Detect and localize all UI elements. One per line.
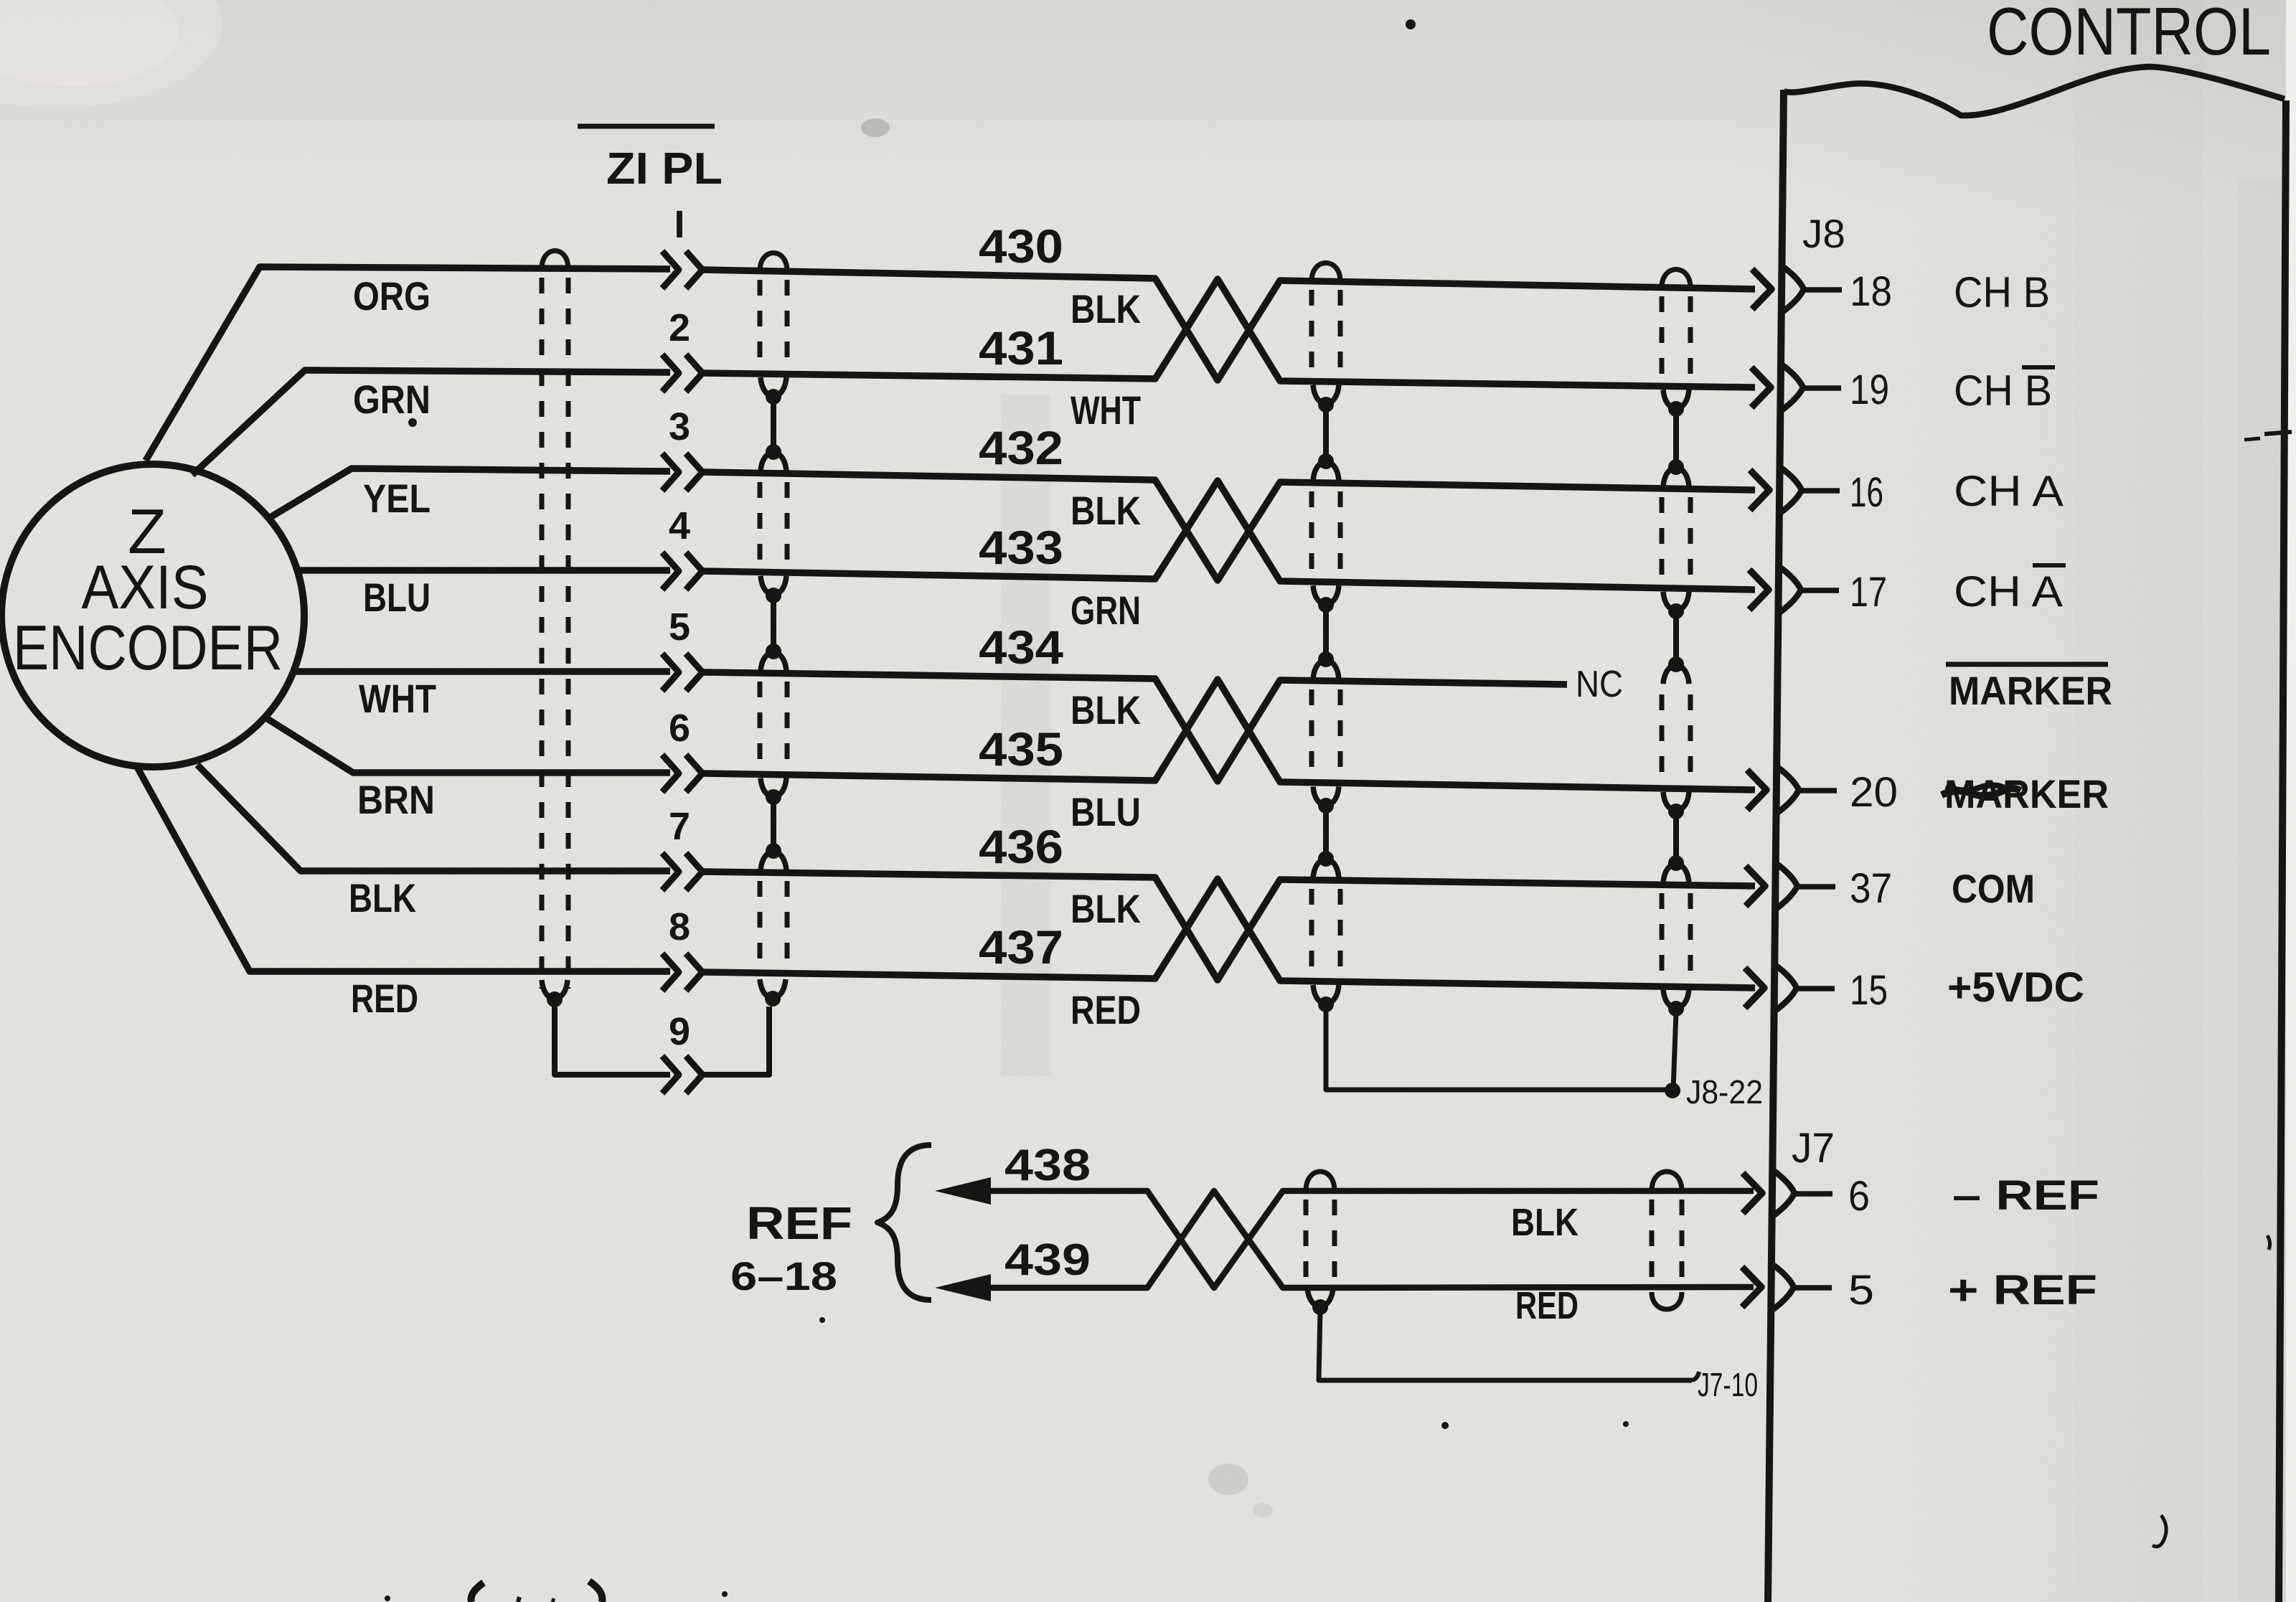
svg-text:437: 437 [979,920,1063,974]
svg-text:– REF: – REF [1952,1172,2099,1219]
svg-text:434: 434 [979,621,1063,674]
svg-text:ENCODER: ENCODER [13,612,283,683]
svg-text:ZI PL: ZI PL [606,144,723,194]
svg-text:436: 436 [979,820,1063,873]
svg-text:GRN: GRN [353,377,430,422]
svg-text:+5VDC: +5VDC [1947,964,2084,1011]
svg-text:6–18: 6–18 [730,1253,837,1299]
svg-text:J7-10: J7-10 [1698,1366,1758,1403]
svg-text:BLU: BLU [363,575,430,620]
svg-text:CH A: CH A [1954,467,2064,515]
svg-text:BLK: BLK [1071,286,1141,331]
svg-text:6: 6 [669,707,690,750]
svg-text:RED: RED [1071,987,1141,1032]
svg-text:BLU: BLU [1071,789,1141,834]
svg-text:439: 439 [1004,1235,1091,1285]
svg-text:BLK: BLK [349,875,416,920]
svg-text:J7: J7 [1792,1125,1835,1172]
svg-text:ORG: ORG [353,273,430,319]
svg-text:18: 18 [1850,268,1892,315]
svg-text:433: 433 [979,521,1063,574]
svg-text:37: 37 [1850,865,1892,912]
svg-text:J8-22: J8-22 [1686,1073,1763,1111]
svg-text:15: 15 [1850,967,1888,1014]
svg-text:BLK: BLK [1511,1201,1578,1244]
svg-text:REF: REF [746,1197,852,1249]
svg-text:J8: J8 [1802,211,1845,256]
svg-text:+ REF: + REF [1948,1267,2097,1314]
svg-text:17: 17 [1850,569,1887,616]
svg-text:CH A: CH A [1954,567,2063,616]
svg-text:3: 3 [669,405,690,448]
svg-text:19: 19 [1850,367,1889,413]
svg-text:COM: COM [1952,866,2035,911]
svg-text:2: 2 [669,306,690,349]
svg-text:431: 431 [979,321,1063,374]
svg-text:RED: RED [1515,1284,1578,1327]
svg-text:7: 7 [669,805,690,848]
svg-text:5: 5 [669,606,690,649]
svg-text:BLK: BLK [1071,488,1141,533]
svg-text:NC: NC [1576,664,1623,705]
svg-text:BLK: BLK [1071,687,1141,732]
svg-text:CONTROL: CONTROL [1987,0,2271,69]
svg-text:432: 432 [979,421,1063,474]
svg-text:YEL: YEL [363,476,430,521]
svg-text:GRN: GRN [1071,588,1141,633]
svg-text:BLK: BLK [1071,886,1141,931]
svg-text:WHT: WHT [1071,387,1141,433]
svg-text:CH B: CH B [1954,268,2050,316]
svg-text:4: 4 [669,504,690,547]
svg-text:CH B: CH B [1954,367,2052,415]
svg-text:BRN: BRN [357,777,435,822]
svg-text:5: 5 [1848,1267,1874,1314]
svg-text:I: I [674,203,684,246]
svg-text:8: 8 [669,905,690,948]
svg-text:MARKER: MARKER [1949,668,2112,713]
svg-text:435: 435 [979,722,1063,776]
svg-text:20: 20 [1850,769,1898,816]
svg-text:6: 6 [1848,1173,1870,1220]
svg-text:RED: RED [351,976,418,1021]
svg-text:16: 16 [1850,469,1883,516]
svg-text:WHT: WHT [359,676,436,721]
svg-text:9: 9 [669,1010,690,1053]
svg-text:438: 438 [1004,1141,1091,1190]
svg-text:430: 430 [979,220,1063,273]
